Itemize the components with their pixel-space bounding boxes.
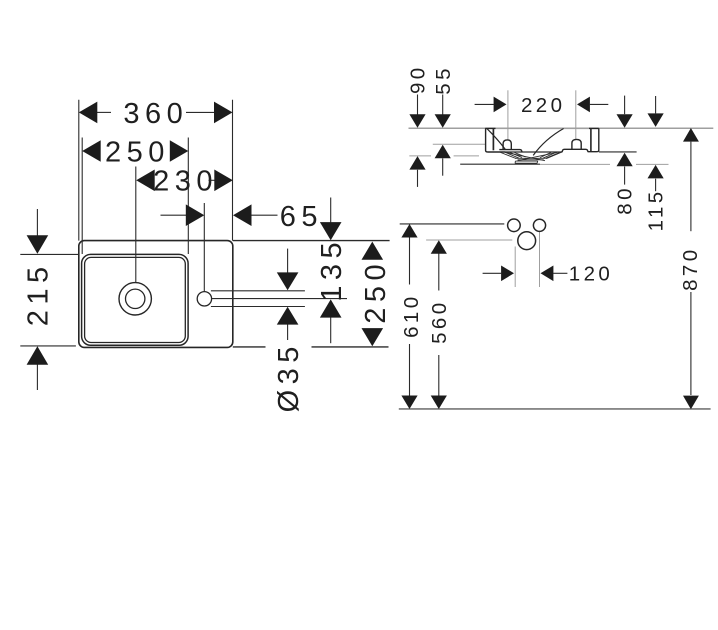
bowl underside flat line 1 xyxy=(515,157,546,159)
right mounting bracket flange xyxy=(565,149,588,151)
extension below left anchor hole xyxy=(514,247,516,288)
svg-text:120: 120 xyxy=(569,263,613,286)
dim 55 arrow top xyxy=(435,114,451,128)
dim 220 leader right xyxy=(590,103,609,105)
svg-text:215: 215 xyxy=(22,261,54,326)
bowl underside hatch left 3 xyxy=(510,152,523,157)
bowl underside flat line 2 xyxy=(518,159,544,161)
basin bottom edge extended right xyxy=(599,151,637,153)
dim 560 arrow top xyxy=(431,240,447,254)
svg-text:80: 80 xyxy=(614,185,637,215)
dim 360 line segments xyxy=(97,111,111,113)
bowl silhouette diagonal left xyxy=(487,129,506,150)
svg-text:Ø35: Ø35 xyxy=(273,341,305,412)
dim 870 arrow top xyxy=(683,128,699,142)
basin front: left outer wall xyxy=(486,128,506,152)
dim 55 shaft top xyxy=(442,95,444,115)
floor line xyxy=(399,408,711,410)
dim 65 arrow left xyxy=(186,204,205,226)
dim 360 arrow left xyxy=(79,102,98,124)
dim 215 arrow bottom xyxy=(27,346,49,365)
dim 90 shaft top xyxy=(417,95,419,115)
right mounting bracket dome xyxy=(572,139,581,149)
dim 250v arrow bottom xyxy=(362,328,384,346)
dim 135 shaft top xyxy=(330,198,332,223)
svg-text:560: 560 xyxy=(428,299,451,343)
faucet hole centre line xyxy=(212,298,347,300)
dim 250 extension line left xyxy=(81,138,83,255)
dim 560 shaft bottom xyxy=(438,355,440,396)
dim 55 arrow bottom xyxy=(435,145,451,159)
bowl underside hatch left 1 xyxy=(500,152,517,159)
dim 220 extension line right xyxy=(575,90,577,139)
dim 115 arrow bottom xyxy=(648,165,664,179)
drain bottom line xyxy=(460,163,540,165)
dim D35 arrow top xyxy=(277,272,299,290)
svg-text:230: 230 xyxy=(153,165,218,197)
dim 135 arrow bottom xyxy=(320,299,342,317)
washbasin top-view outer rim xyxy=(79,241,233,348)
bowl underside hatch left 4 xyxy=(515,153,526,157)
dim 90 datum line segments xyxy=(409,155,431,157)
top edge datum extended right xyxy=(233,240,390,242)
wall anchor hole right xyxy=(533,219,545,231)
drain flange top xyxy=(515,160,537,162)
dim 135 arrow top xyxy=(320,222,342,240)
dim 120 leader left xyxy=(483,272,502,274)
dim 90 arrow bottom xyxy=(409,156,425,170)
dim 215 extension line top xyxy=(20,253,79,255)
dim 120 arrow right xyxy=(541,266,554,282)
dim 560 shaft top xyxy=(438,254,440,291)
dim 220 extension line left xyxy=(507,90,509,139)
wall datum line right of basin xyxy=(599,127,714,129)
dim 65 leader right xyxy=(251,214,277,216)
svg-text:220: 220 xyxy=(521,94,565,117)
dim 115 arrow top xyxy=(648,113,664,127)
dim 870 arrow bottom xyxy=(683,396,699,410)
dim 230 arrow left xyxy=(136,170,155,192)
dim 80 shaft bottom xyxy=(624,167,626,185)
dim D35 tangent line top xyxy=(211,290,305,292)
left mounting bracket flange xyxy=(499,150,522,152)
drain flange bottom xyxy=(515,162,537,164)
basin front: dark top edge cap right xyxy=(589,127,599,129)
dim 230 extension line left (to drain) xyxy=(135,167,137,283)
right bracket step to bowl band xyxy=(546,149,564,158)
dim 115 shaft bottom xyxy=(655,179,657,192)
dim 610 arrow top xyxy=(401,224,417,238)
basin front: dark top edge cap left xyxy=(485,127,495,129)
bowl underside hatch right 2 xyxy=(543,152,557,158)
drain flange right side xyxy=(536,161,539,163)
basin front: right inner wall xyxy=(590,128,592,151)
wall anchor hole left xyxy=(508,219,521,232)
svg-text:90: 90 xyxy=(407,64,430,94)
dim 120 leader right xyxy=(553,272,567,274)
bowl silhouette arc right xyxy=(533,129,563,156)
svg-text:360: 360 xyxy=(123,98,188,130)
dim 560 arrow bottom xyxy=(431,396,447,410)
dim 55 datum line xyxy=(433,143,485,145)
bowl inner edge xyxy=(85,257,186,342)
svg-text:65: 65 xyxy=(280,201,323,233)
dim 80 arrow top xyxy=(617,114,633,128)
dim 65 arrow right xyxy=(233,204,252,226)
drain outer circle xyxy=(119,283,151,315)
bowl underside hatch left 2 xyxy=(505,152,520,158)
dim D35 tangent line bottom xyxy=(211,306,305,308)
wall datum line left of basin xyxy=(409,127,486,129)
svg-text:250: 250 xyxy=(105,137,170,169)
dim 250 arrow left xyxy=(82,140,101,162)
dim 80 shaft top xyxy=(624,96,626,115)
drain flange left side xyxy=(514,161,516,163)
left mounting bracket dome xyxy=(503,140,511,150)
faucet hole circle xyxy=(197,292,211,306)
dim 90 shaft bottom xyxy=(417,170,419,187)
dim 215 shaft bottom xyxy=(36,365,38,391)
dim 220 arrow left xyxy=(494,97,507,113)
dim 115 shaft top xyxy=(655,96,657,113)
svg-text:115: 115 xyxy=(645,188,668,231)
dim 215 shaft top xyxy=(36,209,38,236)
drain bottom datum line right part xyxy=(540,163,610,165)
dim D35 shaft bottom xyxy=(287,324,289,340)
dim 215 extension line bottom xyxy=(20,345,76,347)
dim 250v arrow top xyxy=(362,242,384,260)
bowl underside hatch right 3 xyxy=(540,152,551,157)
dim 135 shaft bottom xyxy=(330,317,332,343)
svg-text:870: 870 xyxy=(679,246,702,290)
dim 250 extension line right xyxy=(187,138,189,255)
dim 610 datum line xyxy=(400,223,505,225)
bottom edge datum segments extended right xyxy=(233,346,266,348)
dim 360 arrow right xyxy=(214,102,233,124)
dim 65 extension line of faucet hole xyxy=(203,203,205,291)
dim 90 arrow top xyxy=(409,114,425,128)
dim D35 shaft top xyxy=(287,249,289,273)
drain inner circle xyxy=(126,289,145,308)
bowl underside cross diagonal left xyxy=(505,152,545,160)
basin front: left inner wall xyxy=(492,128,494,150)
dim 220 leader left xyxy=(475,103,494,105)
bowl underside cross diagonal right xyxy=(518,152,558,160)
bowl underside hatch right 1 xyxy=(546,152,562,159)
dim 230 line segment xyxy=(209,179,215,181)
dim 610 arrow bottom xyxy=(401,396,417,410)
svg-text:135: 135 xyxy=(316,237,348,302)
dim 610 shaft bottom xyxy=(409,344,411,396)
dim 80 arrow bottom xyxy=(617,153,633,167)
dim 610 shaft top xyxy=(409,237,411,284)
dim 120 arrow left xyxy=(501,266,514,282)
dim 360 extension line left xyxy=(78,100,80,241)
dim 220 arrow right xyxy=(577,97,590,113)
svg-text:610: 610 xyxy=(400,293,423,337)
basin front: right outer wall xyxy=(588,128,599,151)
dim 250 arrow right xyxy=(170,140,189,162)
extension below right anchor hole xyxy=(539,232,541,287)
dim 215 arrow top xyxy=(27,235,49,254)
dim 55 shaft bottom xyxy=(442,158,444,175)
basin top edge (light) xyxy=(485,127,599,129)
svg-text:250: 250 xyxy=(360,259,392,324)
bowl outer edge xyxy=(82,254,189,345)
dim 360 extension line right xyxy=(232,100,234,241)
dim 870 shaft top xyxy=(690,142,692,232)
svg-text:55: 55 xyxy=(432,65,455,95)
dim 230 arrow right xyxy=(214,170,233,192)
dim 65 leader left xyxy=(161,214,187,216)
bowl underside band line xyxy=(506,151,563,153)
drain outlet circle xyxy=(518,232,536,250)
dim 870 shaft bottom xyxy=(690,292,692,395)
dim 560 datum line xyxy=(426,239,512,241)
dim D35 arrow bottom xyxy=(277,307,299,325)
